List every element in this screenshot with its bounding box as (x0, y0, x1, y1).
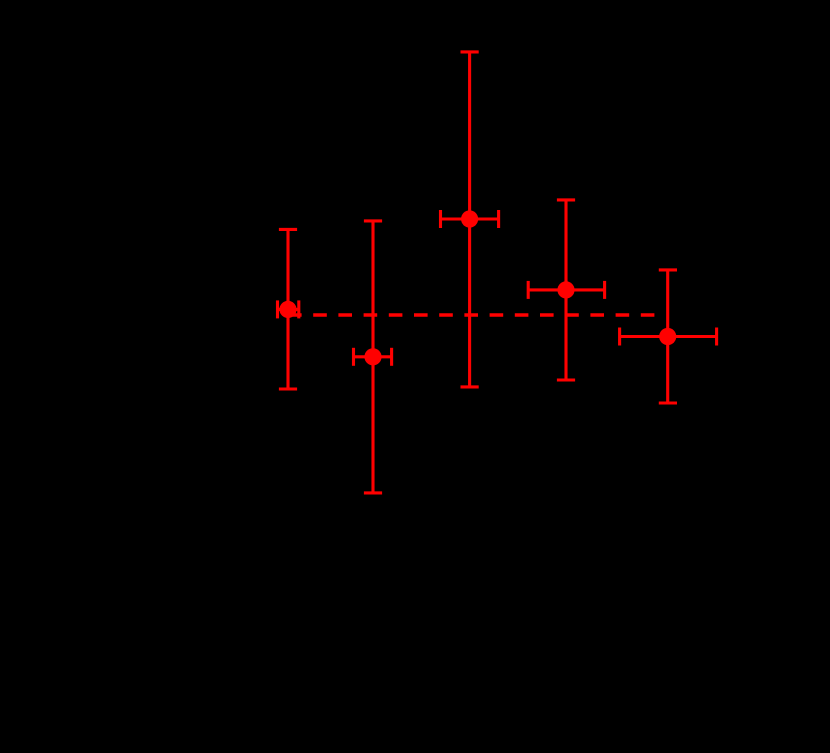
data point 1 error bars (278, 229, 299, 389)
data point 5 marker (659, 328, 676, 345)
data point 3 marker (461, 210, 478, 227)
data point 2 marker (364, 348, 381, 365)
data point 4 marker (557, 281, 574, 298)
data point 4 error bars (528, 200, 604, 380)
data point 5 error bars (620, 270, 717, 403)
dashed horizontal reference line (288, 313, 655, 316)
data point 3 error bars (441, 52, 499, 387)
data point 1 marker (279, 301, 296, 318)
data point 2 error bars (354, 221, 392, 493)
